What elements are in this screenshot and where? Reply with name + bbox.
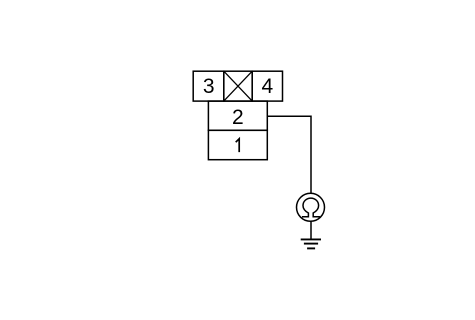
load L1 (lamp/resistive load, circle with omega) <box>297 193 325 221</box>
connector pin box 2 <box>208 101 267 130</box>
connector pin box 4 <box>252 71 282 101</box>
ground symbol <box>301 239 321 248</box>
svg-text:4: 4 <box>261 75 273 98</box>
wire from load to ground <box>310 221 312 239</box>
wire from pin 2 to load <box>267 116 311 193</box>
connector pin box 1 <box>208 130 267 159</box>
crossed (unused) connector cavity <box>224 71 252 101</box>
svg-text:2: 2 <box>232 106 244 129</box>
svg-text:3: 3 <box>203 75 215 98</box>
connector pin box 3 <box>193 71 224 101</box>
